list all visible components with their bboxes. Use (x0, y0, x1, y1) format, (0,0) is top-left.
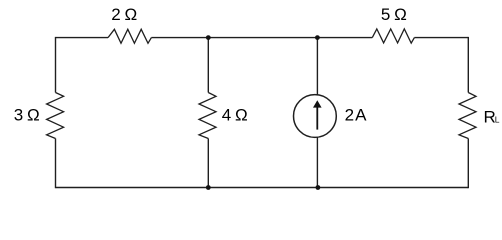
wire left branch upper (55, 37, 57, 93)
current source arrowhead (313, 100, 322, 107)
wire right branch lower (467, 139, 469, 189)
node dot top at 4ohm branch (206, 35, 211, 40)
svg-text:2A: 2A (345, 105, 367, 124)
node dot top at source branch (315, 35, 320, 40)
wire top-left segment (56, 37, 109, 39)
wire left branch lower (55, 139, 57, 189)
resistor R 3ohm zigzag (47, 93, 64, 139)
node dot bottom at 4ohm branch (206, 185, 211, 190)
wire 4ohm branch lower (207, 139, 209, 188)
svg-text:5 Ω: 5 Ω (381, 5, 406, 24)
svg-text:4 Ω: 4 Ω (222, 106, 247, 125)
wire source branch lower (316, 137, 318, 187)
wire top-middle segment (151, 37, 372, 39)
wire source branch upper (316, 38, 318, 95)
wire top-right segment (414, 37, 468, 39)
wire 4ohm branch upper (207, 38, 209, 93)
resistor R 2ohm zigzag (108, 29, 151, 43)
resistor RL zigzag (459, 93, 476, 139)
resistor R 5ohm zigzag (372, 29, 414, 43)
svg-text:3 Ω: 3 Ω (14, 105, 39, 124)
svg-text:2 Ω: 2 Ω (111, 5, 136, 24)
wire bottom rail (56, 187, 469, 189)
current source I1 circle (294, 95, 337, 138)
node dot bottom at source branch (316, 185, 321, 190)
current source arrow shaft (316, 107, 318, 130)
resistor R 4ohm zigzag (199, 93, 216, 139)
wire right branch upper (467, 37, 469, 93)
svg-text:RL: RL (484, 107, 500, 126)
